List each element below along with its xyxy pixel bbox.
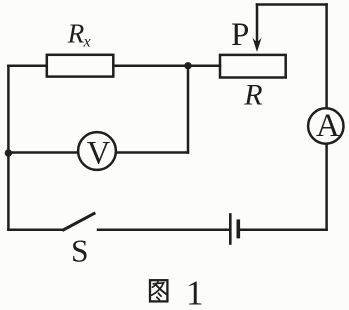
wire right vertical upper: [325, 5, 328, 108]
node junction top: [184, 62, 191, 69]
rheostat R box: [220, 55, 286, 78]
wire bottom right: [240, 229, 327, 232]
wire left vertical: [7, 66, 10, 230]
node junction left: [5, 149, 12, 156]
wire right vertical lower: [325, 145, 328, 230]
svg-text:S: S: [71, 234, 89, 269]
switch S blade: [64, 214, 95, 230]
battery short plate: [237, 221, 241, 236]
图 outer box: [150, 280, 167, 301]
wire voltmeter right: [116, 151, 188, 154]
caption 图: [150, 280, 167, 301]
wire top-left horizontal to Rx: [8, 65, 46, 68]
wire bottom left: [8, 229, 63, 232]
svg-text:x: x: [83, 33, 91, 50]
wire voltmeter left: [8, 151, 78, 154]
冬 stroke 1: [153, 282, 159, 287]
svg-text:V: V: [87, 136, 111, 172]
wire top horizontal: [257, 3, 327, 6]
svg-text:R: R: [243, 79, 262, 112]
battery long plate: [229, 215, 232, 244]
wire junction down: [187, 66, 190, 153]
冬 stroke 2 horizontal then fall: [152, 283, 164, 295]
voltmeter V: [78, 132, 116, 170]
svg-text:1: 1: [186, 274, 204, 310]
冬 stroke 3 right-falling: [156, 285, 166, 294]
svg-text:P: P: [231, 17, 249, 53]
冬 dot 2: [157, 297, 160, 300]
ammeter A: [308, 108, 343, 143]
冬 dot 1: [158, 293, 161, 296]
wire Rx to rheostat junction: [114, 65, 220, 68]
svg-text:A: A: [316, 108, 340, 144]
wiper P arrowhead: [252, 38, 261, 52]
svg-text:R: R: [67, 18, 85, 48]
wire bottom middle: [98, 229, 229, 232]
resistor Rx: [47, 55, 114, 77]
wiper P arrow stem: [256, 5, 259, 44]
